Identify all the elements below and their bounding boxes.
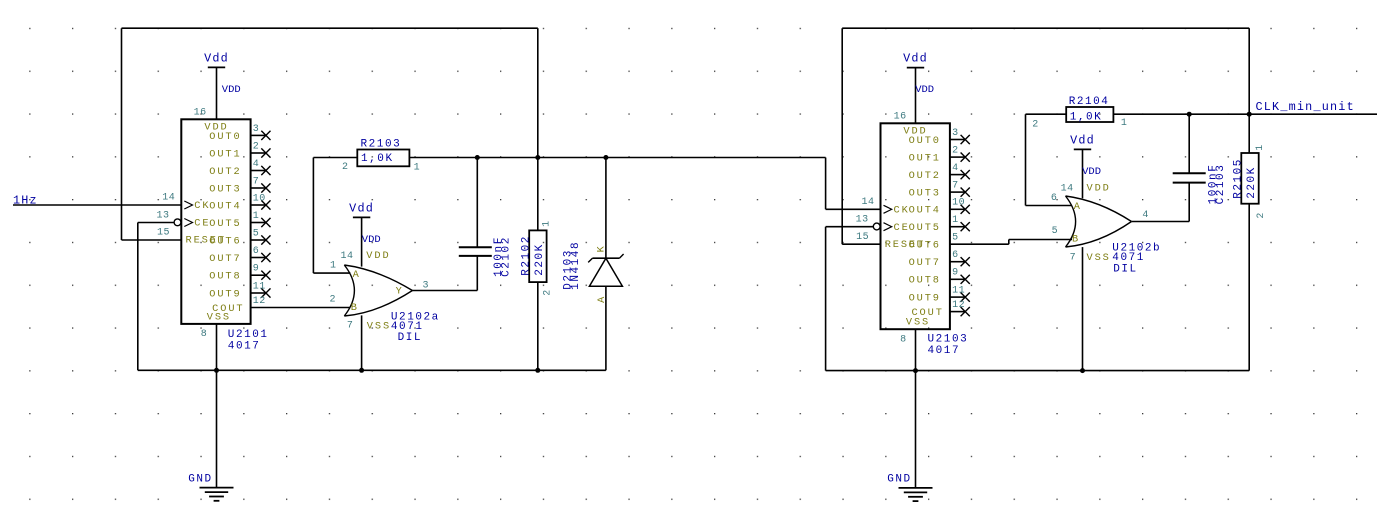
svg-text:3: 3 (952, 128, 959, 139)
U2102a VDD pin 14 (361, 217, 363, 266)
U2103 pin 16 VDD stub (915, 68, 917, 124)
svg-text:11: 11 (952, 286, 965, 297)
svg-text:16: 16 (194, 108, 207, 119)
GND symbol right (915, 371, 917, 488)
U2103 pin 1 OUT5 no-connect (950, 226, 965, 228)
svg-text:RESET: RESET (186, 235, 226, 247)
wire node to U2103 CK (825, 158, 827, 210)
svg-text:OUT2: OUT2 (909, 170, 941, 182)
wire top of right loop (842, 27, 1249, 29)
svg-text:220K: 220K (1246, 166, 1258, 199)
svg-text:2: 2 (543, 289, 554, 296)
svg-text:OUT0: OUT0 (909, 135, 941, 147)
svg-text:RESET: RESET (885, 239, 925, 251)
svg-text:4: 4 (1142, 210, 1149, 221)
svg-text:1: 1 (542, 220, 553, 227)
U2101 pin 14 CK (184, 201, 192, 209)
U2101 pin 8 VSS stub to ground bus (216, 324, 218, 370)
svg-text:2: 2 (253, 141, 260, 152)
power symbol Vdd U2102a (353, 216, 370, 218)
svg-text:11: 11 (253, 281, 266, 292)
svg-text:OUT4: OUT4 (209, 200, 241, 212)
svg-text:OUT9: OUT9 (909, 293, 941, 305)
svg-text:1: 1 (414, 162, 421, 173)
svg-text:8: 8 (900, 334, 907, 345)
junction U2101 VSS on ground bus (214, 368, 219, 373)
wire RESET loop left vertical (121, 28, 123, 240)
U2101 pin 10 OUT4 no-connect (251, 204, 266, 206)
svg-text:1N4148: 1N4148 (570, 241, 582, 290)
U2103 pin 2 OUT1 no-connect (950, 156, 965, 158)
U2101 pin 9 OUT8 no-connect (251, 274, 266, 276)
svg-text:3: 3 (253, 124, 260, 135)
wire right RESET loop vertical (841, 28, 843, 244)
svg-text:15: 15 (157, 228, 170, 239)
svg-text:Vdd: Vdd (349, 201, 374, 215)
resistor R2105 220K (1241, 153, 1258, 204)
wire left bottom ground bus (138, 369, 606, 371)
U2103 pin 11 OUT9 no-connect (950, 296, 965, 298)
U2103 pin 5 OUT6 wire to U2102b input B (950, 243, 1009, 245)
svg-text:VSS: VSS (1087, 252, 1111, 264)
svg-text:3: 3 (423, 280, 430, 291)
svg-text:6: 6 (253, 246, 260, 257)
resistor R2104 1,0K (1066, 107, 1113, 122)
svg-text:14: 14 (340, 251, 353, 262)
svg-text:R2102: R2102 (521, 235, 533, 276)
svg-text:4017: 4017 (928, 345, 961, 357)
U2103 pin 8 VSS stub to ground bus (915, 329, 917, 370)
power symbol Vdd U2103 (907, 67, 924, 69)
op-amp U2102a OR gate 4071 (344, 265, 412, 316)
resistor R2103 1,0K (357, 150, 409, 167)
U2103 pin 14 CK (884, 205, 892, 213)
wire right loop to CLK node (1248, 28, 1250, 153)
wire CE pin 13 horizontal (138, 222, 174, 224)
svg-text:VDD: VDD (362, 234, 381, 246)
svg-text:CLK_min_unit: CLK_min_unit (1256, 100, 1355, 114)
svg-text:OUT2: OUT2 (209, 166, 241, 178)
svg-text:VDD: VDD (1082, 166, 1101, 178)
R2104 pin 1 wire to CLK node (1113, 113, 1377, 115)
svg-text:220K: 220K (534, 243, 546, 276)
svg-text:OUT3: OUT3 (909, 188, 941, 200)
svg-text:K: K (595, 244, 607, 252)
svg-text:OUT9: OUT9 (209, 288, 241, 300)
svg-text:7: 7 (347, 321, 354, 332)
GND symbol left (216, 370, 218, 487)
svg-text:CK: CK (894, 205, 910, 217)
svg-text:A: A (596, 295, 608, 303)
IC U2103 4017 body (881, 123, 950, 329)
svg-text:9: 9 (952, 268, 959, 279)
svg-text:7: 7 (952, 181, 959, 192)
svg-text:VDD: VDD (222, 84, 241, 96)
svg-text:OUT5: OUT5 (209, 218, 241, 230)
svg-text:12: 12 (952, 300, 965, 311)
svg-text:U2101: U2101 (228, 329, 269, 341)
svg-text:8: 8 (201, 329, 208, 340)
svg-text:C2103: C2103 (1215, 164, 1227, 205)
svg-text:CE: CE (194, 218, 210, 230)
power symbol Vdd U2101 (208, 66, 225, 68)
svg-text:OUT7: OUT7 (209, 253, 241, 265)
svg-text:CK: CK (194, 200, 210, 212)
svg-text:COUT: COUT (911, 307, 943, 319)
svg-text:13: 13 (856, 215, 869, 226)
svg-text:1: 1 (1255, 144, 1266, 151)
svg-text:Vdd: Vdd (204, 51, 229, 65)
junction CLK node loop (1247, 112, 1252, 117)
svg-text:A: A (1074, 201, 1082, 213)
U2101 pin 16 VDD stub (216, 67, 218, 119)
wire CE to ground vertical (137, 223, 139, 371)
svg-text:14: 14 (1061, 183, 1074, 194)
svg-text:R2103: R2103 (361, 139, 402, 151)
svg-text:1: 1 (952, 215, 959, 226)
svg-text:6: 6 (952, 250, 959, 261)
U2103 pin 6 OUT7 no-connect (950, 261, 965, 263)
U2101 pin 7 OUT3 no-connect (251, 187, 266, 189)
svg-text:9: 9 (253, 264, 260, 275)
svg-text:OUT5: OUT5 (909, 222, 941, 234)
svg-text:4017: 4017 (228, 340, 261, 352)
U2101 pin 5 OUT6 no-connect (251, 239, 266, 241)
svg-text:COUT: COUT (212, 303, 244, 315)
U2102a output wire to C2102 (412, 290, 477, 292)
svg-text:5: 5 (952, 233, 959, 244)
svg-text:1,0K: 1,0K (361, 153, 394, 165)
capacitor C2102 100nF (476, 158, 478, 248)
svg-text:2: 2 (1256, 212, 1267, 219)
svg-text:Y: Y (396, 285, 404, 297)
svg-text:10: 10 (253, 193, 266, 204)
svg-text:6: 6 (1051, 193, 1058, 204)
junction D2103 cathode (603, 155, 608, 160)
U2103 pin 9 OUT8 no-connect (950, 278, 965, 280)
svg-text:12: 12 (253, 296, 266, 307)
junction C2103 top (1187, 112, 1192, 117)
svg-text:14: 14 (861, 197, 874, 208)
U2101 pin 3 OUT0 no-connect (251, 134, 266, 136)
diode D2103 1N4148 (605, 158, 607, 259)
U2103 pin 12 COUT no-connect (950, 311, 965, 313)
wire 1Hz to U2101 CK pin 14 (13, 204, 181, 206)
svg-text:Vdd: Vdd (903, 52, 928, 66)
U2102a VSS pin 7 (361, 315, 363, 370)
svg-text:U2103: U2103 (928, 333, 969, 345)
svg-text:5: 5 (253, 228, 260, 239)
svg-text:4: 4 (952, 163, 959, 174)
wire R2103 to U2102a input A (312, 158, 314, 274)
svg-text:R2104: R2104 (1069, 96, 1110, 108)
U2103 pin 4 OUT2 no-connect (950, 174, 965, 176)
svg-text:C2102: C2102 (500, 236, 512, 277)
IC U2101 4017 body (181, 119, 250, 324)
op-amp U2102b OR gate 4071 (1066, 196, 1132, 247)
svg-text:B: B (351, 302, 359, 314)
power symbol Vdd U2102b (1074, 148, 1091, 150)
svg-text:OUT1: OUT1 (209, 148, 241, 160)
U2101 pin 11 OUT9 no-connect (251, 292, 266, 294)
wire RESET pin 15 horizontal (122, 239, 182, 241)
svg-text:15: 15 (856, 232, 869, 243)
svg-text:OUT0: OUT0 (209, 131, 241, 143)
wire right bottom ground bus (826, 370, 1250, 372)
svg-text:VSS: VSS (367, 321, 391, 333)
U2101 pin 6 OUT7 no-connect (251, 257, 266, 259)
svg-text:VDD: VDD (366, 250, 390, 262)
svg-text:R2105: R2105 (1232, 158, 1244, 199)
svg-text:16: 16 (894, 112, 907, 123)
svg-text:DIL: DIL (1113, 264, 1137, 276)
svg-text:GND: GND (887, 474, 911, 486)
svg-text:1: 1 (253, 211, 260, 222)
U2101 pin 2 OUT1 no-connect (251, 152, 266, 154)
svg-text:1: 1 (1121, 118, 1128, 129)
U2101 pin 4 OUT2 no-connect (251, 170, 266, 172)
junction R2102 top / loop (535, 155, 540, 160)
svg-text:2: 2 (952, 146, 959, 157)
U2101 pin 1 OUT5 no-connect (251, 222, 266, 224)
svg-text:7: 7 (1070, 252, 1077, 263)
svg-text:13: 13 (156, 210, 169, 221)
U2101 pin 12 COUT wire to U2102a input B (251, 307, 351, 309)
svg-text:1: 1 (330, 260, 337, 271)
U2103 pin 7 OUT3 no-connect (950, 191, 965, 193)
capacitor C2103 100nF (1188, 114, 1190, 173)
svg-text:OUT8: OUT8 (209, 271, 241, 283)
svg-text:OUT8: OUT8 (909, 275, 941, 287)
svg-text:5: 5 (1052, 226, 1059, 237)
svg-text:2: 2 (1032, 119, 1039, 130)
U2103 pin 13 CE inverted (873, 223, 880, 230)
svg-text:4: 4 (253, 159, 260, 170)
U2103 pin 10 OUT4 no-connect (950, 208, 965, 210)
U2102b output wire to C2103 (1132, 221, 1190, 223)
resistor R2102 220K (529, 230, 546, 282)
wire CE right to ground (826, 226, 873, 228)
svg-text:OUT3: OUT3 (209, 183, 241, 195)
U2103 pin 3 OUT0 no-connect (950, 139, 965, 141)
U2102b VDD pin 14 (1082, 149, 1084, 198)
svg-text:B: B (1072, 234, 1080, 246)
svg-text:OUT7: OUT7 (909, 257, 941, 269)
svg-text:Vdd: Vdd (1070, 133, 1095, 147)
svg-text:OUT4: OUT4 (909, 205, 941, 217)
junction C2102 top (475, 155, 480, 160)
U2102b VSS pin 7 (1082, 247, 1084, 371)
wire right vertical of left loop to node (537, 28, 539, 230)
svg-text:14: 14 (162, 193, 175, 204)
wire top of left loop (122, 27, 538, 29)
svg-text:CE: CE (894, 222, 910, 234)
svg-text:4071: 4071 (391, 321, 424, 333)
svg-text:OUT1: OUT1 (909, 153, 941, 165)
R2104 pin 2 wire loop to U2102b input A (1026, 113, 1067, 115)
svg-text:4071: 4071 (1112, 252, 1145, 264)
svg-text:1,0K: 1,0K (1070, 111, 1103, 123)
svg-text:7: 7 (253, 176, 260, 187)
svg-text:2: 2 (329, 294, 336, 305)
svg-text:2: 2 (342, 162, 349, 173)
R2103 pin 2 wire (313, 157, 357, 159)
svg-text:A: A (353, 269, 361, 281)
node wire RC network y157 (409, 157, 825, 159)
svg-text:VDD: VDD (915, 84, 934, 96)
svg-text:VDD: VDD (1087, 182, 1111, 194)
svg-text:GND: GND (188, 473, 212, 485)
svg-text:10: 10 (952, 198, 965, 209)
svg-text:DIL: DIL (398, 332, 422, 344)
U2101 pin 13 CE inverted (174, 219, 181, 226)
